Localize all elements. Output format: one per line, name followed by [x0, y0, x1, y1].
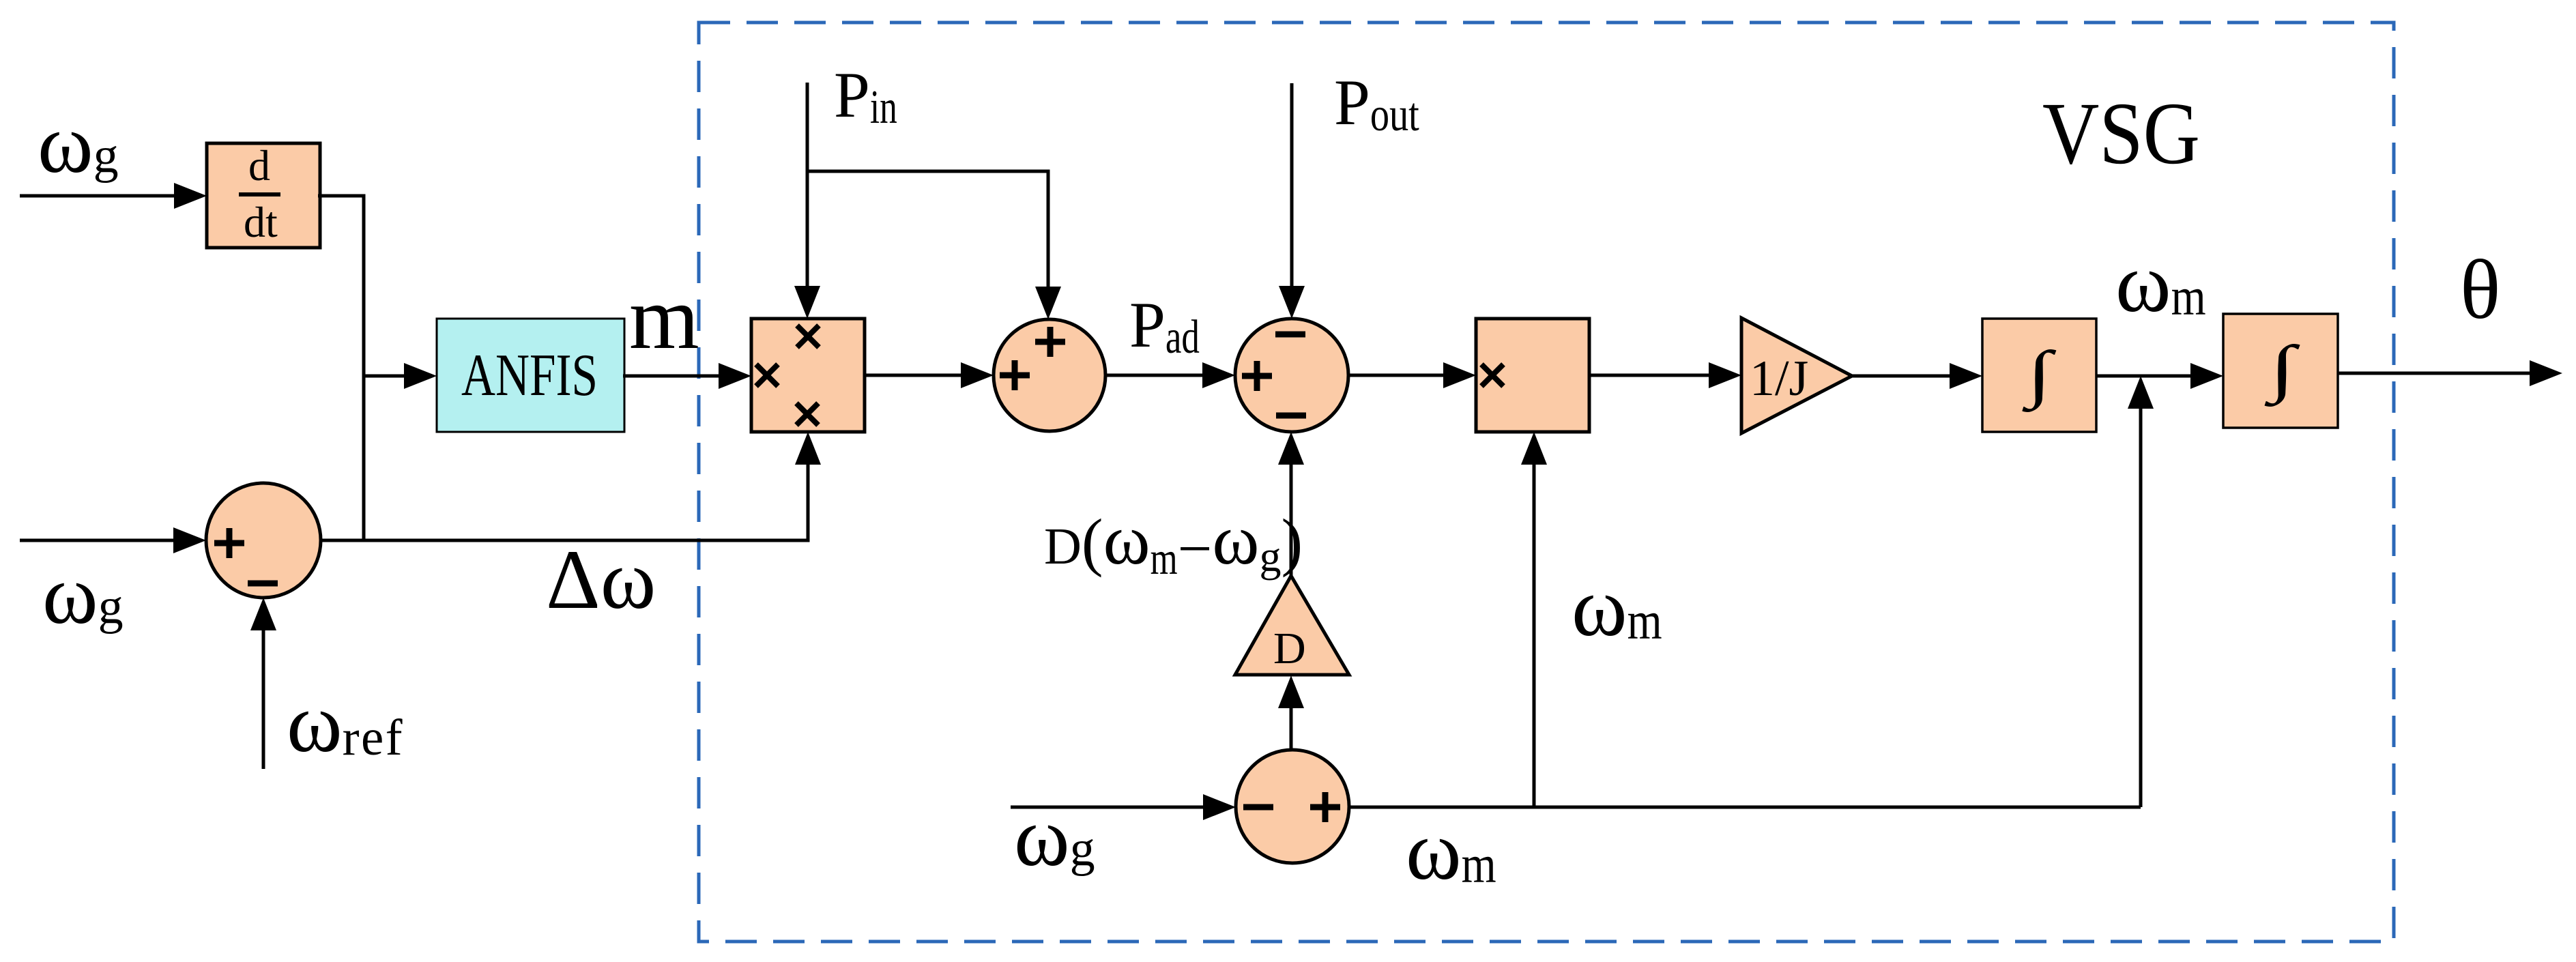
wire omega_g into S4: [1011, 794, 1236, 820]
wire theta output: [2338, 360, 2562, 386]
svg-text:dt: dt: [244, 198, 278, 246]
VSG dashed boundary box: [699, 23, 2394, 942]
summing junction S3 (left): [206, 483, 321, 598]
block d/dt: [207, 141, 320, 248]
integrator block I2: [2223, 314, 2338, 428]
summing junction S4 (bottom): [1236, 750, 1349, 863]
wire omega_ref up into S3: [250, 598, 276, 769]
node theta label: [2460, 243, 2500, 336]
node omega_ref label: [287, 676, 403, 770]
summing junction S2: [1235, 319, 1348, 432]
node Delta-omega label: [546, 533, 656, 626]
VSG label: [2042, 85, 2200, 183]
wire P_in down into multiplier top: [794, 83, 820, 319]
svg-text:D(ωm−ωg): D(ωm−ωg): [1044, 499, 1303, 584]
svg-text:ωg: ωg: [42, 548, 124, 641]
svg-text:θ: θ: [2460, 243, 2500, 336]
wire omega_g into d/dt: [20, 183, 207, 209]
svg-text:ωg: ωg: [38, 97, 119, 190]
wire summer S4 output up into D triangle: [1278, 675, 1304, 750]
wire d/dt output down to Delta-omega line: [318, 196, 364, 541]
svg-text:ANFIS: ANFIS: [461, 342, 598, 409]
svg-text:ωm: ωm: [1572, 560, 1662, 654]
svg-text:m: m: [629, 267, 699, 368]
node D(omega_m - omega_g) label: [1044, 499, 1303, 584]
svg-text:Δω: Δω: [546, 533, 656, 626]
multiplier block X2: [1476, 319, 1589, 432]
svg-text:ωm: ωm: [2115, 236, 2206, 330]
svg-text:1/J: 1/J: [1750, 351, 1808, 407]
node omega_g mid-left label: [42, 548, 124, 641]
wire P_ad into summer S2: [1105, 362, 1235, 388]
node P_in label: [834, 59, 897, 134]
node P_out label: [1334, 66, 1419, 141]
svg-text:D: D: [1273, 624, 1306, 673]
multiplier block X1: [751, 319, 865, 432]
svg-text:d: d: [248, 141, 270, 190]
node omega_g bottom label: [1014, 790, 1095, 884]
svg-text:ωm: ωm: [1406, 804, 1496, 897]
svg-text:VSG: VSG: [2042, 85, 2200, 183]
node P_ad label: [1129, 289, 1200, 364]
wire P_out down into summer S2 top: [1279, 83, 1305, 319]
node omega_m label beside feedback branch: [1572, 560, 1662, 654]
wire branch into ANFIS: [364, 363, 437, 389]
node omega_g top-left label: [38, 97, 119, 190]
gain block 1/J: [1741, 318, 1852, 433]
node m label: [629, 267, 699, 368]
wire I1 to I2: [2096, 363, 2223, 389]
node omega_m label above I1-I2 wire: [2115, 236, 2206, 330]
svg-text:Pout: Pout: [1334, 66, 1419, 141]
wire 1/J to integrator I1: [1851, 363, 1982, 389]
svg-text:ωg: ωg: [1014, 790, 1095, 884]
wire m into multiplier: [623, 363, 751, 389]
wire S2 to multiplier X2: [1348, 362, 1476, 388]
wire X1 to summer S1: [865, 362, 994, 388]
wire D output up into S2 bottom: [1278, 432, 1304, 576]
block ANFIS: [437, 319, 624, 432]
gain block D (triangle): [1235, 576, 1349, 675]
wire feedback omega_m down from I1-I2 junction: [1349, 376, 2154, 807]
svg-text:∫: ∫: [2022, 338, 2057, 413]
wire X2 to gain 1/J: [1589, 362, 1741, 388]
svg-text:ωref: ωref: [287, 676, 403, 770]
wire omega_g into S3: [20, 527, 206, 553]
svg-text:Pad: Pad: [1129, 289, 1200, 364]
svg-text:Pin: Pin: [834, 59, 897, 134]
wire Delta-omega from S3 to X1 bottom: [321, 432, 821, 540]
node omega_m label right of S4: [1406, 804, 1496, 897]
svg-text:∫: ∫: [2264, 333, 2301, 407]
wire P_in branch to summer S1 top: [807, 171, 1061, 319]
wire omega_m branch up into X2 bottom: [1521, 432, 1547, 807]
integrator block I1: [1982, 319, 2096, 432]
summing junction S1: [994, 319, 1105, 431]
